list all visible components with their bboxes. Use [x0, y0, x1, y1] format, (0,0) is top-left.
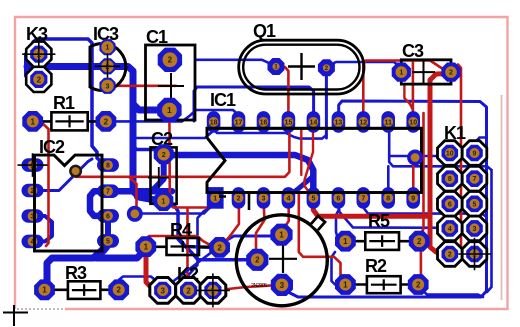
resistor R5 pad 1: [335, 231, 356, 252]
connector K3 pad 1: [22, 38, 55, 71]
capacitor C1 pad 1: [157, 98, 181, 122]
wire thick red C3.2 down to IC1.5 and K1.2: [313, 74, 449, 254]
wire blue IC1.7 to right side: [364, 204, 487, 217]
IC IC2 label: [39, 137, 65, 157]
transistor IC3 pad 1: [99, 39, 115, 55]
resistor R4 pad 2: [209, 237, 230, 258]
wire blue via2 to IC1.1: [136, 199, 215, 214]
svg-text:10: 10: [446, 151, 454, 158]
svg-text:2: 2: [237, 195, 241, 202]
svg-text:2: 2: [417, 237, 422, 246]
wire blue right second vertical: [487, 170, 492, 292]
capacitor C3 pad 1: [392, 63, 411, 82]
crystal Q1 pad 1: [268, 58, 285, 75]
IC IC1 body outline: [207, 128, 422, 192]
connector K1 pads: [438, 141, 491, 271]
svg-text:7: 7: [361, 195, 365, 202]
svg-text:13: 13: [334, 119, 342, 126]
wire blue jog below pad18: [133, 131, 213, 138]
transistor Q2 pad 2: [246, 249, 268, 271]
wire red via to IC1.9: [412, 158, 415, 192]
capacitor C1 label: [146, 27, 168, 47]
wire blue Q1.2 down: [325, 70, 328, 138]
transistor IC3 pad 2: [95, 54, 121, 80]
resistor R2 label: [365, 256, 387, 276]
svg-text:6: 6: [106, 213, 110, 220]
resistor R2 pad 1: [335, 274, 356, 295]
via near IC2.8: [69, 165, 82, 178]
wire blue IC1.13 up and right edge down to bottom: [283, 101, 487, 297]
wire blue R4.2 diagonal to K2.3: [163, 242, 225, 290]
resistor R3 leads: [45, 288, 119, 291]
wire thick blue K3.1 to IC3.2 to C1.1: [27, 67, 163, 202]
svg-text:7: 7: [473, 176, 477, 183]
connector K2 label: [177, 264, 199, 284]
IC IC2 body outline overlay: [35, 155, 103, 251]
svg-text:11: 11: [385, 119, 393, 126]
capacitor C1 pad 2: [158, 48, 182, 72]
resistor R1 pad 2: [96, 111, 117, 132]
resistor R5 leads: [346, 240, 419, 243]
svg-text:8: 8: [448, 176, 452, 183]
wire blue C1.2 to Q1.1: [196, 60, 276, 67]
transistor Q2 pad 3: [271, 274, 293, 296]
svg-text:4: 4: [448, 226, 452, 233]
wire red branch to K2.2: [188, 209, 213, 290]
svg-text:2: 2: [106, 64, 110, 71]
resistor R4 label: [170, 220, 192, 240]
wire red Q1.1 to IC1.15: [279, 67, 288, 114]
wire blue K2.2 up: [189, 208, 210, 288]
svg-text:8: 8: [106, 163, 110, 170]
wire blue IC2.3-IC2.4 loop: [33, 216, 52, 241]
wire blue R2.1 left up: [332, 252, 346, 285]
wire red IC1 inner vertical: [300, 129, 302, 175]
transistor IC3 outline: [90, 43, 126, 90]
wire blue K3 pads left loop: [26, 54, 39, 79]
svg-text:1: 1: [144, 242, 149, 251]
wire red C1.1 to IC1.1: [169, 114, 215, 208]
wire red vertical left of thick red: [420, 113, 424, 238]
crystal Q1 pad 2: [318, 59, 335, 76]
svg-text:1: 1: [161, 199, 165, 206]
transistor Q2 outline circle: [236, 215, 327, 306]
svg-text:R2: R2: [365, 256, 387, 276]
origin marker bottom-left: [3, 305, 28, 326]
IC IC2 body outline: [35, 155, 103, 251]
svg-text:1: 1: [473, 252, 477, 259]
wire blue IC1.6 diagonal to K1.4: [339, 206, 450, 228]
svg-text:C3: C3: [402, 41, 424, 61]
wire red K2.1 to Q2.3: [219, 285, 274, 290]
connector K3 pad 2: [26, 67, 51, 92]
resistor R3 label: [65, 263, 87, 283]
resistor R4 pad 1: [135, 236, 156, 257]
wire red IC1.12 up to C3.2: [363, 61, 448, 115]
svg-text:2: 2: [255, 256, 260, 265]
svg-text:1: 1: [279, 231, 284, 240]
wire red C3.2 down through K1: [453, 65, 461, 253]
capacitor C3 outline: [401, 60, 451, 84]
resistor R5 label: [368, 211, 390, 231]
resistor R3 pad 1: [34, 279, 55, 300]
svg-text:5: 5: [311, 195, 315, 202]
faint inner edge line: [501, 95, 503, 300]
resistor R1 label: [53, 93, 75, 113]
svg-text:1: 1: [399, 70, 403, 77]
connector K2 pad 2: [176, 278, 202, 304]
capacitor C2 plus: [148, 167, 169, 188]
svg-text:17: 17: [235, 119, 243, 126]
capacitor C3 pad 2: [441, 63, 460, 82]
svg-text:1: 1: [213, 195, 217, 202]
wire red R5.2 to R2.2: [418, 245, 421, 284]
capacitor C3 label: [402, 41, 424, 61]
crystal Q1 plus: [288, 53, 315, 80]
wire thick red R4.1 to K2.3: [146, 249, 160, 290]
resistor R2 leads: [346, 283, 418, 286]
svg-text:2: 2: [37, 75, 42, 84]
svg-text:R1: R1: [53, 93, 75, 113]
svg-text:5: 5: [106, 238, 110, 245]
wire thick blue C2.2 to IC1.5: [166, 155, 313, 195]
IC IC2 pads: [18, 153, 120, 248]
wire blue IC1.18 to IC1.14 inside body: [214, 129, 327, 139]
svg-text:3: 3: [160, 286, 165, 295]
svg-text:3: 3: [106, 83, 110, 90]
svg-text:3: 3: [473, 226, 477, 233]
capacitor C2 outline: [151, 147, 177, 203]
IC IC1 bottom pads 1-9: [207, 187, 420, 209]
svg-text:12: 12: [359, 119, 367, 126]
wire blue R3.2 to K2.3: [119, 277, 163, 289]
svg-text:2: 2: [416, 280, 421, 289]
svg-text:IC1: IC1: [210, 90, 236, 110]
wire red IC1.4 to Q2.1: [282, 202, 289, 233]
transistor IC3 label: [93, 24, 119, 44]
wire blue K3.1 top to IC3 area vertical: [33, 39, 108, 165]
wire blue R1.2 to IC1.17: [106, 110, 239, 121]
svg-text:2: 2: [217, 243, 222, 252]
svg-text:2N2905: 2N2905: [251, 283, 267, 289]
resistor R4 leads: [146, 246, 220, 249]
resistor R1 pad 1: [22, 111, 43, 132]
svg-text:1: 1: [42, 286, 47, 295]
svg-text:2: 2: [449, 70, 453, 77]
capacitor C1 plus: [158, 73, 184, 99]
wire red R4.1 over body to R4.2: [146, 236, 216, 247]
wire red IC1.3 to Q2.2: [256, 202, 265, 258]
svg-text:1: 1: [211, 286, 216, 295]
transistor IC3 pad 3: [99, 78, 115, 94]
wire blue R5.1 to IC1.6: [336, 202, 345, 241]
wire blue C2.2 stub down: [137, 156, 164, 197]
svg-text:5: 5: [473, 201, 477, 208]
svg-text:7: 7: [106, 189, 110, 196]
capacitor C2 label: [151, 129, 173, 149]
svg-text:2: 2: [186, 286, 191, 295]
resistor R5 pad 2: [409, 231, 430, 252]
svg-text:2: 2: [116, 286, 121, 295]
svg-text:14: 14: [310, 119, 318, 126]
svg-text:4: 4: [286, 195, 290, 202]
IC U1 label IC1: [210, 90, 236, 110]
crystal Q1 label: [253, 21, 276, 41]
svg-text:2: 2: [448, 252, 452, 259]
capacitor C3 plus: [412, 61, 435, 83]
wire thick blue IC2.5 to R3.1 and R4.1: [45, 218, 146, 289]
svg-text:1: 1: [343, 237, 348, 246]
connector K2 pad 3: [150, 278, 176, 304]
wire blue elbow to C2.2: [133, 143, 164, 154]
svg-text:3: 3: [280, 281, 285, 290]
wire red R1.1 down left side: [41, 122, 49, 246]
svg-text:3: 3: [262, 195, 266, 202]
svg-text:15: 15: [285, 119, 293, 126]
svg-text:1: 1: [106, 45, 110, 52]
transistor Q2 pad 1: [270, 224, 292, 246]
wire blue R4.2 to Q2 pad1: [220, 235, 277, 247]
svg-text:16: 16: [260, 119, 268, 126]
svg-text:6: 6: [448, 201, 452, 208]
svg-text:1: 1: [30, 117, 35, 126]
resistor R5 body: [365, 232, 399, 250]
svg-text:1: 1: [343, 280, 348, 289]
resistor R2 pad 2: [408, 274, 429, 295]
wire blue branch to Q2 pad2: [178, 237, 252, 260]
wire blue via to K1.10: [390, 154, 450, 156]
resistor R4 body: [167, 238, 200, 255]
wire red IC1.14 down diagonal: [305, 133, 314, 190]
wire red IC1.10 up: [412, 61, 415, 114]
connector K3 label: [26, 24, 48, 44]
IC IC1 top pads 18-10: [207, 111, 420, 133]
svg-text:Q1: Q1: [253, 21, 276, 41]
transistor Q2 plus: [269, 245, 297, 273]
wire red C3.1 down to IC1.10: [404, 84, 413, 110]
svg-text:1: 1: [167, 106, 172, 115]
wire blue mid horizontal to IC1.14: [194, 87, 314, 121]
resistor R1 leads: [33, 120, 106, 123]
wire thick blue IC2.7-IC2.6 U loop: [90, 191, 106, 216]
wire blue IC2.2 diagonal up to IC2.8 net: [33, 159, 92, 191]
wire blue R2.2 to bottom right: [418, 285, 483, 298]
svg-text:2: 2: [104, 117, 109, 126]
wire red IC3.3 to C1 plus: [112, 85, 176, 88]
resistor R1 body: [51, 112, 87, 130]
via near IC2.6: [127, 206, 143, 222]
wire blue C2.1 down to R4.2: [166, 201, 212, 247]
svg-text:2: 2: [168, 56, 173, 65]
capacitor C2 pad 1: [153, 191, 173, 211]
wire red IC1 inner vertical to R2.1: [299, 192, 346, 285]
wire blue Q1.2 to C3.1: [330, 62, 401, 72]
resistor R3 body: [68, 281, 101, 299]
wire blue IC1.11 down to via and K1 row2: [388, 130, 491, 192]
capacitor C2 pad 2: [154, 144, 174, 164]
svg-text:8: 8: [386, 195, 390, 202]
wire red IC1.2 to R4.2: [221, 202, 239, 246]
svg-text:1: 1: [37, 50, 42, 59]
IC IC1 body outline overlay: [207, 128, 422, 192]
wire red via1 across to IC1.15: [76, 131, 290, 212]
resistor R2 body: [367, 276, 401, 293]
IC IC1 pin marks: [219, 193, 249, 210]
svg-text:R5: R5: [368, 211, 390, 231]
crystal Q1 outline: [239, 40, 364, 94]
svg-text:9: 9: [473, 151, 477, 158]
wire red K1 stub: [437, 203, 445, 205]
resistor R3 pad 2: [108, 279, 129, 300]
via near IC1.9: [407, 150, 423, 166]
connector K2 pad 1: [196, 273, 230, 307]
svg-text:6: 6: [336, 195, 340, 202]
transistor Q2 value 2N2905: [251, 283, 267, 289]
svg-text:10: 10: [409, 119, 417, 126]
svg-text:9: 9: [411, 195, 415, 202]
svg-text:2: 2: [162, 152, 166, 159]
connector K1 label: [444, 123, 466, 143]
svg-text:18: 18: [210, 119, 218, 126]
capacitor C1 outline: [146, 45, 196, 120]
wire thick blue IC2.7 right: [109, 188, 172, 195]
